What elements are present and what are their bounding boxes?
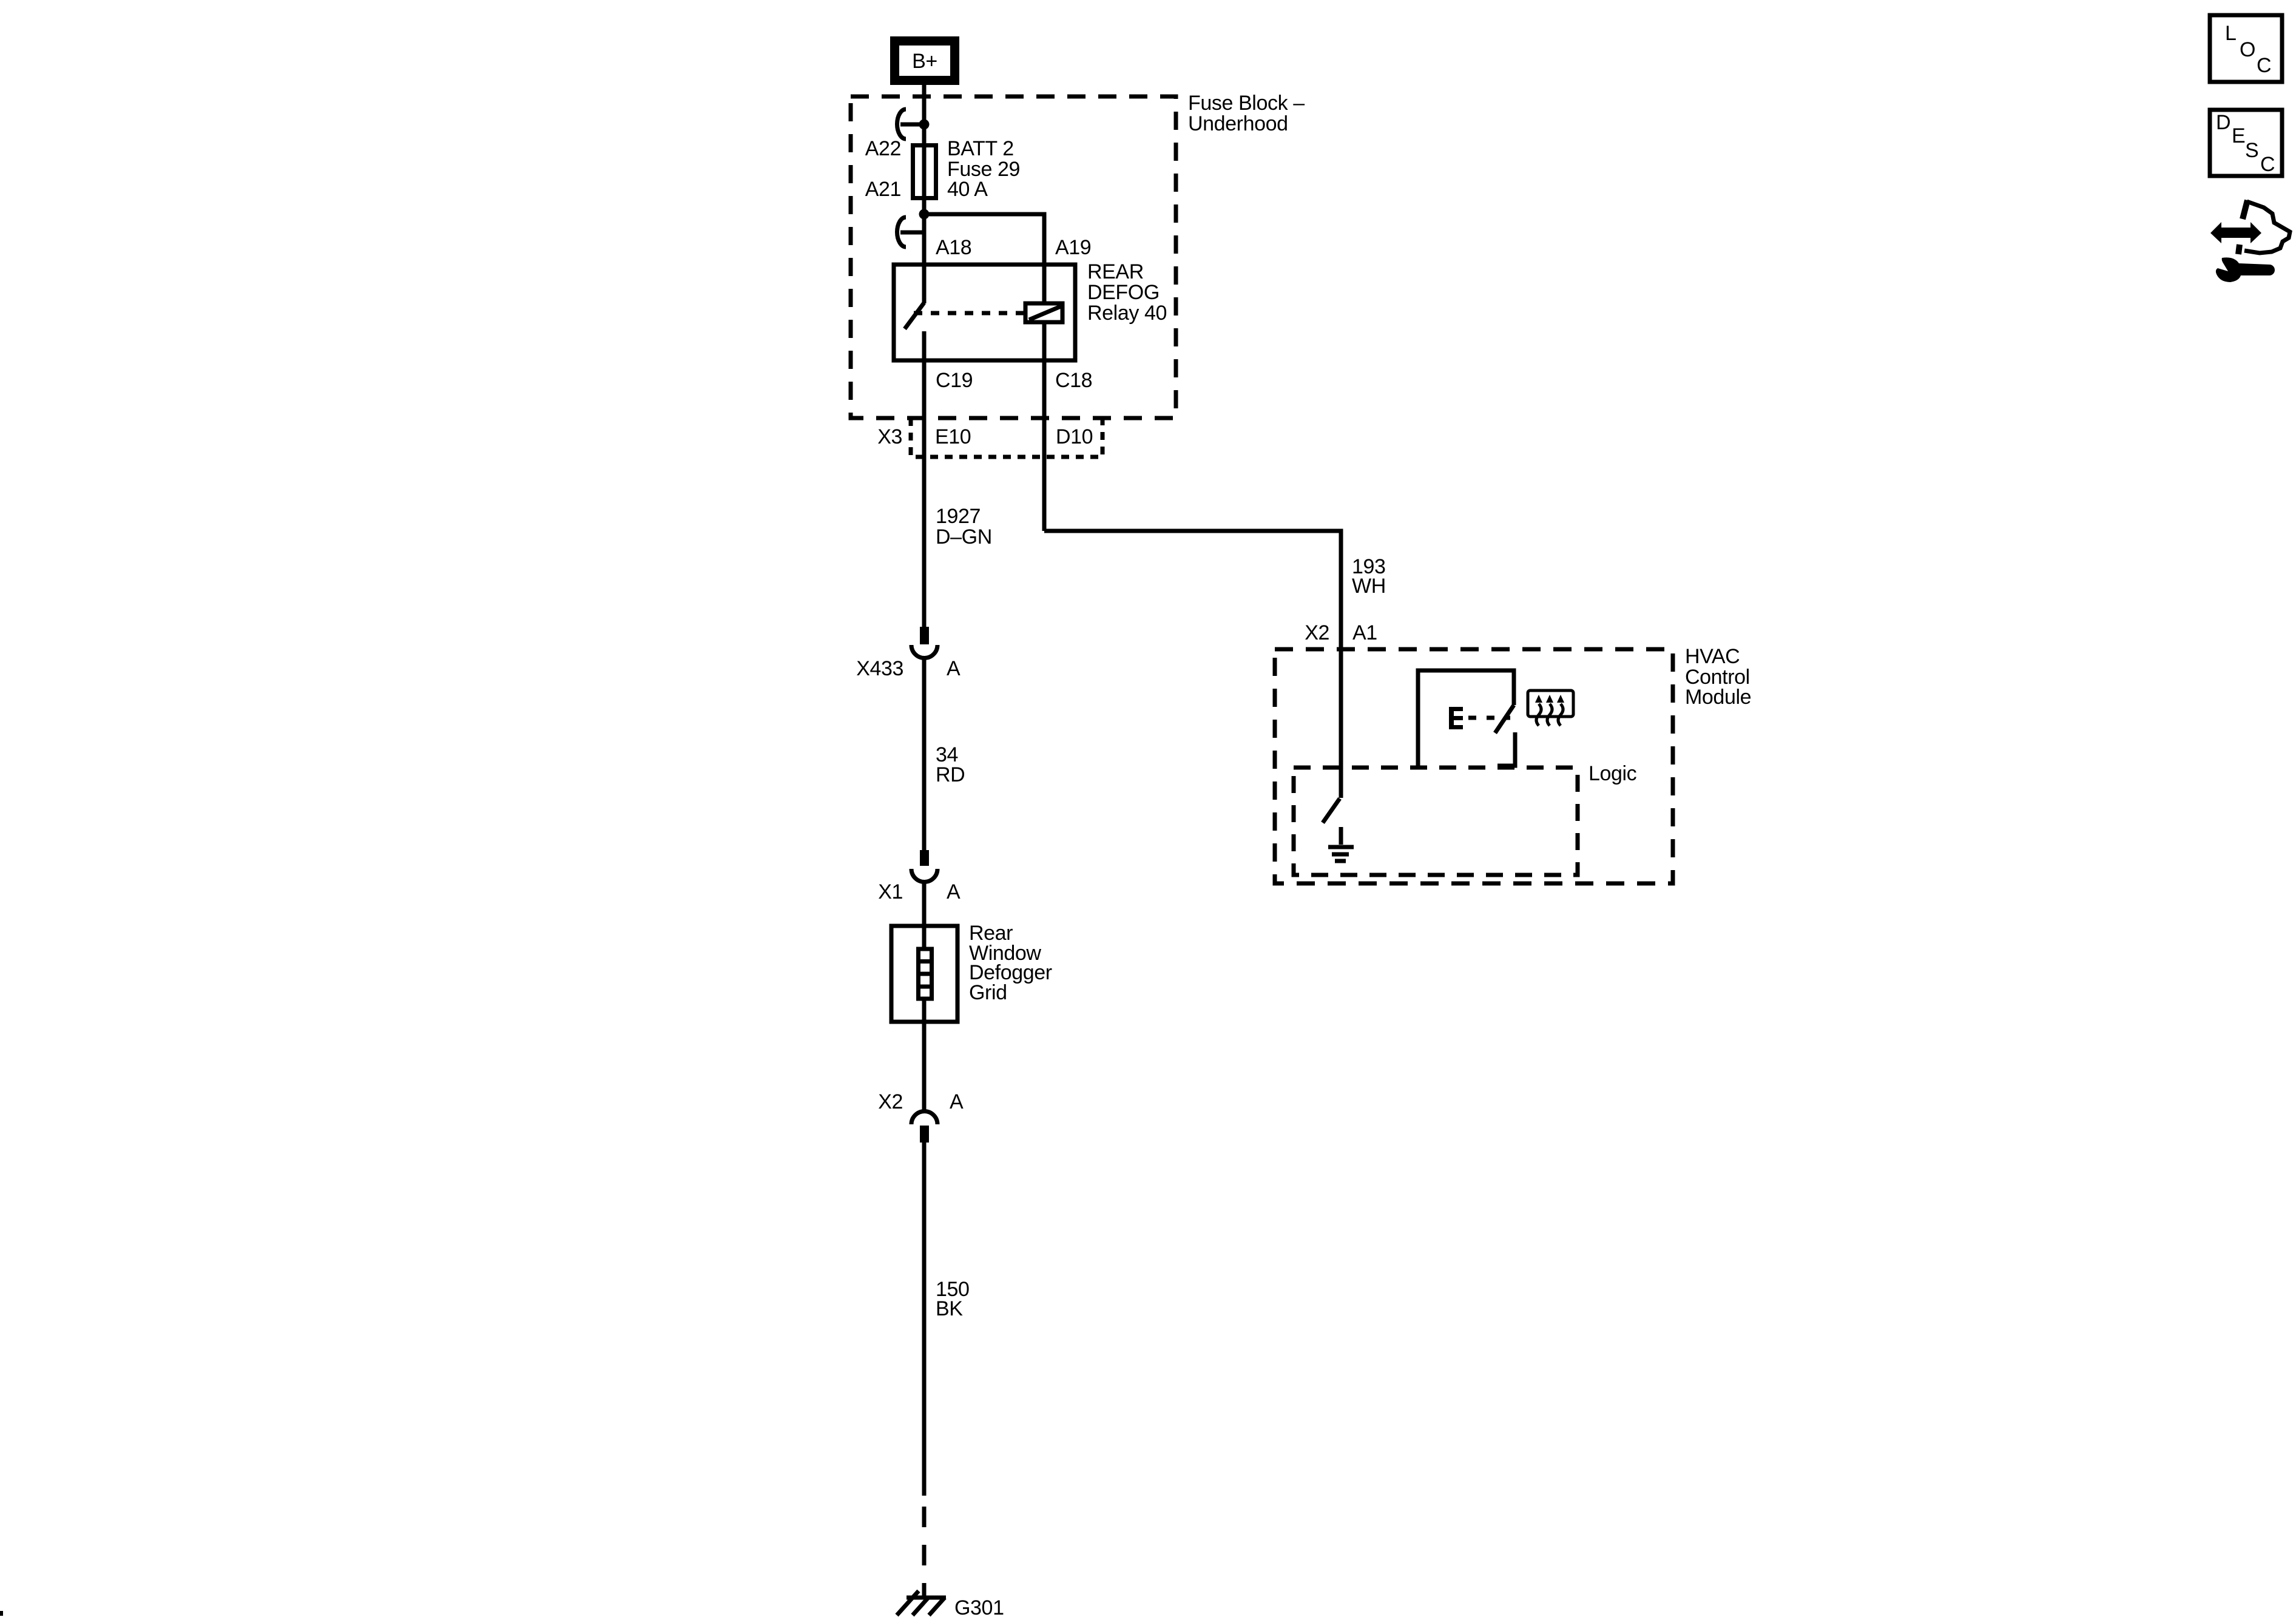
service icon: wrench bbox=[2216, 257, 2275, 282]
connector X2 bbox=[911, 1111, 937, 1143]
LOC reference box bbox=[2210, 15, 2282, 82]
svg-text:E: E bbox=[2232, 124, 2245, 147]
svg-text:Fuse Block –: Fuse Block – bbox=[1188, 92, 1305, 115]
svg-text:40 A: 40 A bbox=[947, 178, 988, 201]
wire fuse to junction bbox=[922, 198, 927, 218]
svg-text:A: A bbox=[947, 657, 961, 680]
svg-text:Relay 40: Relay 40 bbox=[1087, 302, 1167, 325]
svg-text:X433: X433 bbox=[856, 657, 903, 680]
svg-text:C: C bbox=[2257, 54, 2271, 77]
svg-text:X2: X2 bbox=[878, 1090, 903, 1113]
svg-text:S: S bbox=[2245, 139, 2258, 162]
wire branch A21 to A19 bbox=[924, 214, 1044, 265]
HVAC label bbox=[1685, 645, 1751, 709]
defog switch box bbox=[1418, 670, 1515, 769]
wire A18 down bbox=[922, 214, 927, 303]
svg-text:1927: 1927 bbox=[936, 505, 981, 528]
connector X1 bbox=[911, 850, 937, 882]
svg-text:BK: BK bbox=[936, 1297, 963, 1320]
svg-text:DEFOG: DEFOG bbox=[1087, 281, 1160, 304]
connector X433 bbox=[911, 627, 937, 658]
svg-text:A1: A1 bbox=[1352, 621, 1377, 644]
wire C19 down bbox=[922, 360, 927, 627]
svg-text:O: O bbox=[2240, 38, 2255, 61]
svg-text:C19: C19 bbox=[936, 369, 973, 392]
svg-text:RD: RD bbox=[936, 763, 965, 786]
svg-text:L: L bbox=[2225, 22, 2237, 45]
grid element bbox=[918, 949, 932, 999]
svg-text:C18: C18 bbox=[1055, 369, 1092, 392]
connector X3 dashed box bbox=[911, 418, 1102, 457]
relay label bbox=[1087, 260, 1167, 325]
svg-text:A19: A19 bbox=[1055, 236, 1091, 259]
fuse block underhood dashed box bbox=[851, 96, 1176, 418]
svg-text:D: D bbox=[2216, 111, 2230, 134]
wire label 193 WH bbox=[1352, 555, 1386, 598]
junction A22 bbox=[919, 120, 930, 130]
svg-text:WH: WH bbox=[1352, 575, 1386, 598]
terminal clip A22 bbox=[897, 109, 924, 139]
svg-text:A18: A18 bbox=[936, 236, 971, 259]
internal ground bbox=[1328, 827, 1354, 861]
fuse BATT 2 Fuse 29 40A bbox=[913, 145, 936, 198]
service icon: hand outline bbox=[2238, 200, 2290, 254]
HVAC control module dashed box bbox=[1275, 649, 1673, 883]
svg-text:E10: E10 bbox=[935, 425, 971, 448]
svg-text:X2: X2 bbox=[1305, 621, 1329, 644]
svg-text:X3: X3 bbox=[877, 425, 902, 448]
switch contact E symbol bbox=[1449, 707, 1463, 729]
relay coil diagonal bbox=[1029, 306, 1061, 320]
wire coil to C18 bbox=[1042, 322, 1047, 531]
rear defog indicator icon bbox=[1528, 690, 1573, 726]
service icon: double arrow bbox=[2210, 222, 2261, 243]
terminal clip A21 bbox=[897, 217, 924, 247]
svg-text:G301: G301 bbox=[954, 1596, 1004, 1617]
svg-text:X1: X1 bbox=[878, 880, 903, 903]
junction A21 bbox=[919, 209, 930, 220]
svg-text:Module: Module bbox=[1685, 686, 1751, 709]
wire X2 to ground bbox=[922, 1143, 927, 1496]
wire from B+ to fuse bbox=[922, 85, 927, 145]
relay actuation dashed link bbox=[914, 311, 1025, 316]
DESC reference box bbox=[2210, 110, 2282, 176]
wire label 1927 D-GN bbox=[936, 505, 992, 549]
ground G301 bbox=[897, 1591, 946, 1615]
svg-text:Underhood: Underhood bbox=[1188, 112, 1288, 135]
wire X433 to X1 bbox=[922, 658, 927, 850]
rear window defogger grid box bbox=[891, 926, 957, 1022]
wire C18/D10 to HVAC bbox=[1044, 531, 1341, 798]
svg-text:D10: D10 bbox=[1056, 425, 1093, 448]
svg-text:A21: A21 bbox=[865, 178, 901, 201]
svg-text:Grid: Grid bbox=[969, 981, 1007, 1004]
svg-text:HVAC: HVAC bbox=[1685, 645, 1740, 668]
svg-text:A: A bbox=[950, 1090, 964, 1113]
svg-text:D–GN: D–GN bbox=[936, 525, 992, 549]
svg-text:C: C bbox=[2260, 153, 2275, 176]
svg-text:B+: B+ bbox=[912, 50, 937, 73]
wire A19 to coil bbox=[1042, 265, 1047, 303]
relay switch lower contact bbox=[922, 331, 927, 360]
wire grid to X2 bbox=[922, 999, 927, 1111]
svg-text:REAR: REAR bbox=[1087, 260, 1144, 283]
svg-text:A22: A22 bbox=[865, 137, 901, 160]
grid label bbox=[969, 922, 1052, 1004]
svg-text:A: A bbox=[947, 880, 961, 903]
logic switch blade bbox=[1323, 798, 1340, 823]
fuse block label bbox=[1188, 92, 1305, 135]
corner artifact bbox=[0, 1611, 3, 1616]
dashed wire to G301 bbox=[922, 1507, 927, 1598]
fuse value label bbox=[947, 137, 1020, 201]
relay REAR DEFOG Relay 40 box bbox=[894, 265, 1075, 360]
switch dashed link bbox=[1468, 716, 1510, 720]
svg-text:BATT 2: BATT 2 bbox=[947, 137, 1014, 160]
wire label 34 RD bbox=[936, 743, 965, 786]
B+ power symbol bbox=[895, 41, 955, 81]
logic dashed box bbox=[1294, 768, 1578, 875]
relay switch blade bbox=[905, 303, 924, 329]
wire X1 to grid bbox=[922, 882, 927, 949]
svg-text:Logic: Logic bbox=[1589, 762, 1637, 785]
relay coil box bbox=[1025, 303, 1062, 322]
wire label 150 BK bbox=[936, 1278, 970, 1320]
